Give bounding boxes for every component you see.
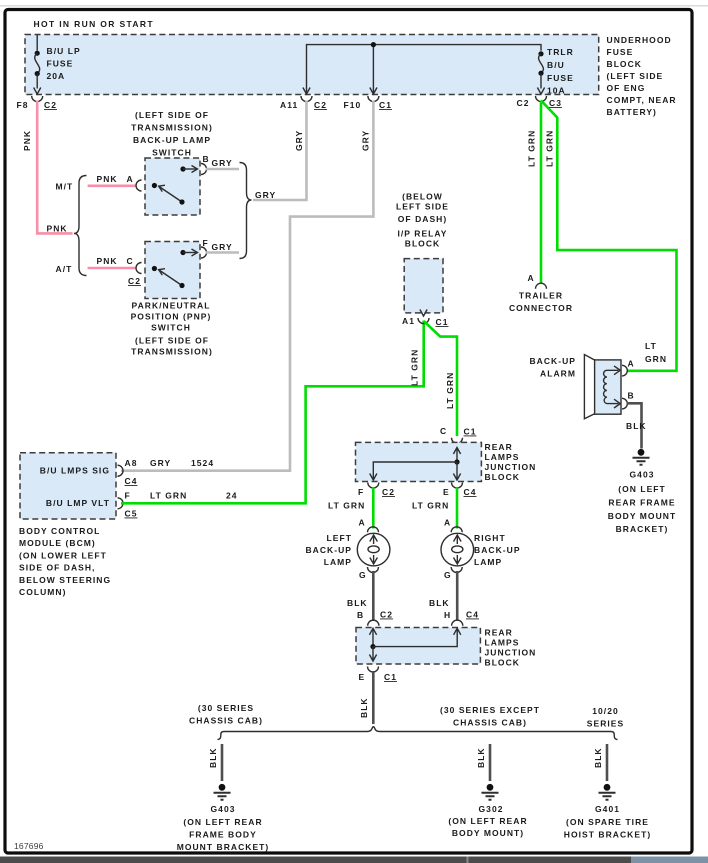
svg-text:BLK: BLK xyxy=(208,747,218,768)
internal wire to terminal E with pin arrow xyxy=(453,462,460,480)
svg-text:BRACKET): BRACKET) xyxy=(616,524,669,534)
terminal cup F10 xyxy=(368,96,379,102)
svg-text:10/20: 10/20 xyxy=(592,706,619,716)
switch S2 common dot xyxy=(152,266,157,271)
labels A1 C1 xyxy=(402,316,448,327)
svg-text:B/U LMPS SIG: B/U LMPS SIG xyxy=(40,466,110,476)
svg-text:C: C xyxy=(127,256,134,266)
terminal cup F8 xyxy=(32,96,43,102)
svg-text:(ON LOWER LEFT: (ON LOWER LEFT xyxy=(19,551,107,561)
wire dropper F10 xyxy=(372,45,374,94)
back-up alarm speaker cone xyxy=(584,355,594,419)
svg-text:LAMPS: LAMPS xyxy=(485,452,520,462)
svg-text:E: E xyxy=(443,487,450,497)
switch S1 output cup B xyxy=(201,164,207,175)
svg-text:A: A xyxy=(628,359,635,369)
svg-text:PNK: PNK xyxy=(22,130,32,151)
svg-text:A8: A8 xyxy=(125,458,138,468)
wire LT GRN C3 to back-up alarm xyxy=(541,101,677,371)
svg-text:F: F xyxy=(203,238,209,248)
svg-text:A: A xyxy=(528,273,535,283)
labels junction block lower xyxy=(485,628,537,668)
svg-text:JUNCTION: JUNCTION xyxy=(485,648,537,658)
status bar blue segment xyxy=(631,857,708,863)
label underhood fuse block location xyxy=(607,35,677,117)
svg-text:MODULE (BCM): MODULE (BCM) xyxy=(19,538,96,548)
ground G403 lower xyxy=(214,784,231,800)
svg-text:BLOCK: BLOCK xyxy=(607,59,642,69)
svg-text:GRY: GRY xyxy=(212,158,233,168)
right back-up lamp xyxy=(441,527,474,573)
svg-text:A: A xyxy=(127,174,134,184)
label G403 lower xyxy=(177,804,270,852)
terminal cup A11 xyxy=(301,96,312,102)
svg-text:HOIST BRACKET): HOIST BRACKET) xyxy=(564,830,651,840)
svg-text:G: G xyxy=(444,570,452,580)
svg-text:B/U LMP VLT: B/U LMP VLT xyxy=(46,498,110,508)
svg-text:LAMP: LAMP xyxy=(324,557,352,567)
svg-text:C3: C3 xyxy=(549,98,562,108)
back-up lamp switch S1 box xyxy=(145,158,200,215)
terminal cup E of lower junction block xyxy=(368,667,379,673)
labels F C2 E C4 xyxy=(358,487,476,497)
svg-text:CHASSIS CAB): CHASSIS CAB) xyxy=(189,716,263,726)
svg-text:C2: C2 xyxy=(382,487,395,497)
svg-text:BLK: BLK xyxy=(626,421,647,431)
svg-text:FUSE: FUSE xyxy=(607,47,634,57)
status bar divider xyxy=(467,857,469,863)
internal wire to terminal F with pin arrow xyxy=(370,462,457,480)
svg-text:SIDE OF DASH,: SIDE OF DASH, xyxy=(19,563,95,573)
wire PNK to switch A xyxy=(88,185,136,188)
terminal cup F of upper junction block xyxy=(368,483,379,489)
svg-text:(LEFT SIDE: (LEFT SIDE xyxy=(607,71,664,81)
terminal cup C3 xyxy=(536,96,547,102)
svg-text:COMPT, NEAR: COMPT, NEAR xyxy=(607,95,677,105)
labels F8 C2 xyxy=(17,100,57,110)
terminal cup B of lower junction block xyxy=(368,620,379,626)
arrow into A11 terminal xyxy=(303,88,310,95)
svg-text:G302: G302 xyxy=(479,804,504,814)
PNP switch S2 box xyxy=(145,242,200,299)
svg-text:(BELOW: (BELOW xyxy=(402,192,443,202)
alarm cup B xyxy=(622,398,627,409)
svg-text:SWITCH: SWITCH xyxy=(152,148,192,158)
svg-text:COLUMN): COLUMN) xyxy=(19,587,66,597)
svg-text:(30 SERIES: (30 SERIES xyxy=(198,703,254,713)
labels C2 C3 xyxy=(517,98,562,108)
wire LT GRN C3 to trailer connector xyxy=(540,101,543,284)
svg-text:LAMP: LAMP xyxy=(474,557,502,567)
switch S2 blade dot xyxy=(179,283,184,288)
junction dot in upper junction block xyxy=(454,459,459,464)
svg-text:FUSE: FUSE xyxy=(547,73,574,83)
svg-text:C2: C2 xyxy=(314,100,327,110)
svg-text:BLOCK: BLOCK xyxy=(405,239,440,249)
ground G403 upper xyxy=(633,449,650,465)
wire BLK to G403 lower xyxy=(221,744,224,781)
svg-text:LT GRN: LT GRN xyxy=(410,349,420,386)
svg-text:167696: 167696 xyxy=(14,841,44,851)
switch S2 output cup F xyxy=(201,247,207,258)
svg-text:C2: C2 xyxy=(380,610,393,620)
svg-text:24: 24 xyxy=(226,491,238,501)
switch S1 output contact xyxy=(180,166,197,173)
switch S2 blade xyxy=(159,269,182,286)
internal wire to terminal E with pin arrow xyxy=(369,647,376,661)
wire fuse feed F8 xyxy=(36,35,38,51)
svg-text:B: B xyxy=(203,154,210,164)
label PNK A xyxy=(97,174,134,184)
brace right GRY merge xyxy=(240,163,252,259)
switch S2 common cup xyxy=(136,263,142,274)
svg-text:SWITCH: SWITCH xyxy=(151,323,191,333)
svg-text:TRANSMISSION): TRANSMISSION) xyxy=(131,347,213,357)
svg-text:C1: C1 xyxy=(384,672,397,682)
wire BLK left lamp down xyxy=(372,571,375,621)
svg-text:10A: 10A xyxy=(547,86,566,96)
svg-text:PARK/NEUTRAL: PARK/NEUTRAL xyxy=(131,301,210,311)
svg-text:A/T: A/T xyxy=(56,264,73,274)
labels A8 GRY 1524 xyxy=(125,458,215,486)
svg-text:PNK: PNK xyxy=(97,256,118,266)
svg-text:C1: C1 xyxy=(464,427,477,437)
svg-text:C4: C4 xyxy=(466,610,479,620)
svg-text:TRAILER: TRAILER xyxy=(519,291,563,301)
svg-text:BATTERY): BATTERY) xyxy=(607,107,657,117)
I/P relay block box xyxy=(404,259,443,313)
svg-text:A1: A1 xyxy=(402,316,415,326)
wire BLK right lamp down xyxy=(456,571,459,621)
svg-text:F8: F8 xyxy=(17,100,29,110)
svg-text:G403: G403 xyxy=(630,470,655,480)
wire BLK to G302 xyxy=(489,744,492,781)
svg-text:F: F xyxy=(358,487,364,497)
svg-text:(ON LEFT REAR: (ON LEFT REAR xyxy=(183,817,262,827)
label PNK C xyxy=(97,256,134,266)
svg-text:C1: C1 xyxy=(436,317,449,327)
label 30 series chassis cab xyxy=(189,703,263,726)
svg-text:LT GRN: LT GRN xyxy=(527,130,537,167)
svg-text:UNDERHOOD: UNDERHOOD xyxy=(607,35,672,45)
rear lamps junction block upper box xyxy=(356,442,482,481)
body control module box xyxy=(20,453,116,519)
labels B C2 H C4 xyxy=(357,610,479,621)
back-up alarm body xyxy=(595,360,621,414)
wire GRY F10 to BCM A8 xyxy=(121,101,373,471)
svg-text:B/U LP: B/U LP xyxy=(47,46,81,56)
svg-text:BODY MOUNT): BODY MOUNT) xyxy=(452,828,524,838)
wire BLK alarm to G403 xyxy=(627,403,642,448)
labels C C1 xyxy=(440,426,476,437)
svg-text:TRANSMISSION): TRANSMISSION) xyxy=(131,123,213,133)
svg-text:A: A xyxy=(359,518,366,528)
wire PNK to switch C xyxy=(88,267,136,270)
svg-text:G403: G403 xyxy=(211,804,236,814)
svg-text:CHASSIS CAB): CHASSIS CAB) xyxy=(453,718,527,728)
svg-text:FRAME BODY: FRAME BODY xyxy=(189,830,257,840)
underhood fuse block bus box xyxy=(25,35,599,95)
svg-text:GRN: GRN xyxy=(645,354,667,364)
wire GRY merged to A11 xyxy=(253,101,307,201)
svg-text:(ON LEFT: (ON LEFT xyxy=(618,484,666,494)
svg-text:G401: G401 xyxy=(595,804,620,814)
pin arrow C into upper junction block xyxy=(453,448,460,463)
svg-text:REAR: REAR xyxy=(485,628,513,638)
terminal cup E of upper junction block xyxy=(452,483,463,489)
svg-text:FUSE: FUSE xyxy=(47,59,74,69)
switch S1 blade dot xyxy=(179,199,184,204)
label back-up lamp switch location xyxy=(131,110,213,158)
svg-text:LT GRN: LT GRN xyxy=(328,501,365,511)
svg-text:BLK: BLK xyxy=(593,747,603,768)
svg-text:G: G xyxy=(359,570,367,580)
svg-text:GRY: GRY xyxy=(150,458,171,468)
svg-text:BLK: BLK xyxy=(347,598,368,608)
wire GRY from F xyxy=(206,251,240,254)
svg-text:C4: C4 xyxy=(464,487,477,497)
svg-text:LT GRN: LT GRN xyxy=(445,372,455,409)
ground G401 xyxy=(599,784,616,800)
svg-text:B/U: B/U xyxy=(547,60,565,70)
svg-text:C2: C2 xyxy=(517,98,530,108)
svg-text:LT: LT xyxy=(645,341,657,351)
svg-text:(ON SPARE TIRE: (ON SPARE TIRE xyxy=(566,817,649,827)
svg-text:MOUNT BRACKET): MOUNT BRACKET) xyxy=(177,842,270,852)
switch S1 blade xyxy=(159,185,182,202)
svg-text:HOT IN RUN OR START: HOT IN RUN OR START xyxy=(34,19,154,29)
label G401 xyxy=(564,804,651,840)
brace left M/T A/T xyxy=(74,176,87,276)
label 10/20 series xyxy=(587,706,624,729)
svg-text:A11: A11 xyxy=(280,100,298,110)
svg-text:GRY: GRY xyxy=(212,242,233,252)
wire GRY from B xyxy=(206,168,240,171)
label PNP switch xyxy=(131,301,213,357)
bus wire inside fuse block xyxy=(307,45,542,94)
wire LT GRN to left lamp xyxy=(372,487,375,529)
svg-text:LT GRN: LT GRN xyxy=(412,501,449,511)
svg-text:F10: F10 xyxy=(344,100,362,110)
svg-text:F: F xyxy=(125,491,131,501)
labels A11 C2 xyxy=(280,100,327,110)
svg-text:BLK: BLK xyxy=(429,598,450,608)
svg-text:BODY CONTROL: BODY CONTROL xyxy=(19,526,100,536)
fuse TRLR B/U 10A xyxy=(537,47,573,96)
svg-text:C: C xyxy=(440,426,447,436)
svg-text:E: E xyxy=(359,672,366,682)
svg-text:BACK-UP LAMP: BACK-UP LAMP xyxy=(133,135,211,145)
BCM terminal cup F xyxy=(118,498,124,509)
label BCM location xyxy=(19,526,111,597)
svg-text:LT GRN: LT GRN xyxy=(545,130,555,167)
label LT GRN alarm wire xyxy=(645,341,667,364)
svg-text:H: H xyxy=(444,610,451,620)
ground G302 xyxy=(482,784,499,800)
svg-text:C2: C2 xyxy=(128,276,141,286)
svg-text:C1: C1 xyxy=(379,100,392,110)
svg-text:C2: C2 xyxy=(44,100,57,110)
labels F LT GRN 24 xyxy=(125,491,238,519)
svg-text:A: A xyxy=(444,518,451,528)
svg-text:BACK-UP: BACK-UP xyxy=(474,545,521,555)
svg-text:BLOCK: BLOCK xyxy=(485,658,520,668)
svg-text:JUNCTION: JUNCTION xyxy=(485,462,537,472)
switch S1 common dot xyxy=(152,183,157,188)
labels F10 C1 xyxy=(344,100,392,110)
svg-text:B: B xyxy=(357,610,364,620)
svg-text:(LEFT SIDE OF: (LEFT SIDE OF xyxy=(135,110,209,120)
alarm cup A xyxy=(622,365,627,376)
wire BLK to G401 xyxy=(606,744,609,781)
svg-text:OF DASH): OF DASH) xyxy=(398,214,447,224)
label G302 xyxy=(448,804,527,838)
svg-text:OF ENG: OF ENG xyxy=(607,83,646,93)
svg-text:BACK-UP: BACK-UP xyxy=(305,545,352,555)
svg-text:PNK: PNK xyxy=(97,174,118,184)
back-up alarm coil xyxy=(604,370,619,403)
svg-text:1524: 1524 xyxy=(191,458,214,468)
svg-text:REAR FRAME: REAR FRAME xyxy=(608,498,675,508)
rear lamps junction block lower box xyxy=(356,628,480,665)
svg-text:I/P RELAY: I/P RELAY xyxy=(397,229,447,239)
junction dot in lower junction block xyxy=(370,644,375,649)
left back-up lamp xyxy=(357,527,390,573)
svg-text:SERIES: SERIES xyxy=(587,719,624,729)
label right back-up lamp xyxy=(474,533,521,567)
svg-text:BELOW STEERING: BELOW STEERING xyxy=(19,575,111,585)
svg-text:LEFT SIDE: LEFT SIDE xyxy=(396,202,449,212)
svg-text:POSITION (PNP): POSITION (PNP) xyxy=(131,312,212,322)
svg-text:20A: 20A xyxy=(47,71,66,81)
label F GRY xyxy=(203,238,233,252)
label B GRY xyxy=(203,154,233,168)
status bar dark segment xyxy=(0,857,631,863)
svg-text:BLK: BLK xyxy=(359,697,369,718)
internal wire from terminal H with pin arrow xyxy=(373,628,461,646)
svg-text:LAMPS: LAMPS xyxy=(485,638,520,648)
svg-text:PNK: PNK xyxy=(47,224,68,234)
svg-text:GRY: GRY xyxy=(361,130,371,151)
svg-text:LEFT: LEFT xyxy=(327,533,352,543)
fuse B/U LP 20A xyxy=(34,46,81,94)
relay terminal arrow A1 xyxy=(420,310,427,317)
svg-text:RIGHT: RIGHT xyxy=(474,533,506,543)
label 30 series except chassis cab xyxy=(440,705,540,728)
terminal cup C of upper junction block xyxy=(452,438,463,444)
svg-text:(30 SERIES EXCEPT: (30 SERIES EXCEPT xyxy=(440,705,540,715)
svg-text:BLOCK: BLOCK xyxy=(485,472,520,482)
svg-text:LT GRN: LT GRN xyxy=(150,491,187,501)
trailer connector cup xyxy=(536,283,547,289)
svg-text:ALARM: ALARM xyxy=(540,369,576,379)
svg-text:(ON LEFT REAR: (ON LEFT REAR xyxy=(448,816,527,826)
wire LT GRN relay to junction block C xyxy=(424,321,457,436)
wire BLK junction to split xyxy=(372,671,375,724)
splice brace xyxy=(218,727,618,740)
switch S1 common cup xyxy=(136,180,142,191)
arrow into F10 terminal xyxy=(370,88,377,95)
wire LT GRN to right lamp xyxy=(456,487,459,529)
terminal cup H of lower junction block xyxy=(452,620,463,626)
svg-text:B: B xyxy=(628,391,635,401)
svg-text:BODY MOUNT: BODY MOUNT xyxy=(608,511,676,521)
alarm pin A arrow xyxy=(614,366,620,375)
svg-text:BACK-UP: BACK-UP xyxy=(529,356,576,366)
labels E C1 xyxy=(359,672,397,682)
label G403 upper xyxy=(608,470,676,535)
wire LT GRN BCM to relay block A1 xyxy=(121,321,424,504)
svg-text:BLK: BLK xyxy=(476,747,486,768)
switch S2 output contact xyxy=(180,249,197,256)
label trailer connector xyxy=(509,291,573,314)
BCM terminal cup A8 xyxy=(118,465,124,476)
top toolbar divider xyxy=(0,5,708,7)
relay terminal cup A1/C1 xyxy=(418,318,429,324)
svg-text:CONNECTOR: CONNECTOR xyxy=(509,303,573,313)
svg-text:REAR: REAR xyxy=(485,442,513,452)
wire PNK from F8 xyxy=(37,101,72,234)
pin arrow B into lower junction block xyxy=(369,628,376,646)
label back-up alarm xyxy=(529,356,576,379)
labels junction block upper xyxy=(485,442,537,482)
junction dot on bus xyxy=(371,42,376,47)
svg-text:M/T: M/T xyxy=(56,182,74,192)
svg-text:C4: C4 xyxy=(125,476,138,486)
svg-text:GRY: GRY xyxy=(255,190,276,200)
svg-text:TRLR: TRLR xyxy=(547,47,574,57)
svg-text:GRY: GRY xyxy=(294,130,304,151)
label I/P relay block location xyxy=(396,192,449,249)
alarm pin B arrow xyxy=(614,399,620,408)
label left back-up lamp xyxy=(305,533,352,567)
svg-text:(LEFT SIDE OF: (LEFT SIDE OF xyxy=(135,336,209,346)
svg-text:C5: C5 xyxy=(125,509,138,519)
